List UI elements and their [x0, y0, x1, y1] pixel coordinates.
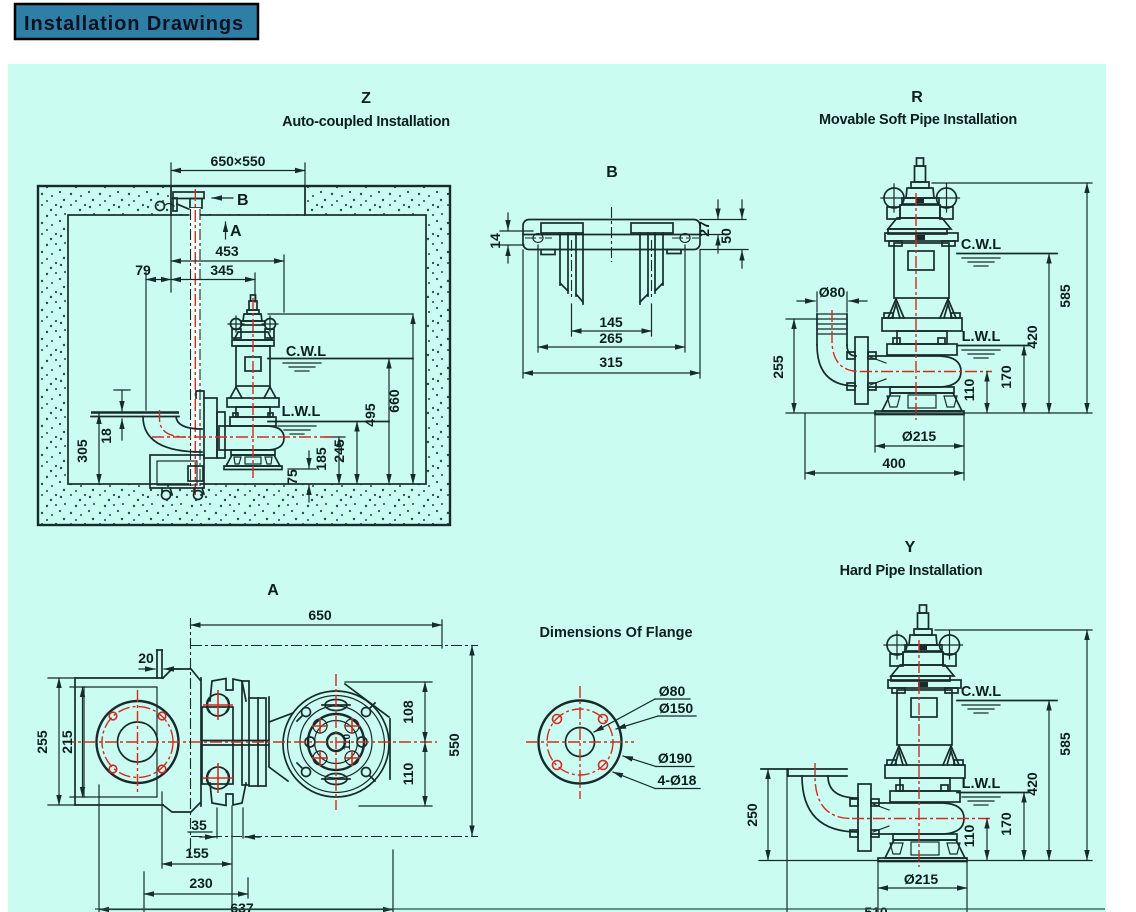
pump Z: skirt [226, 455, 280, 466]
base reference line [786, 412, 1092, 414]
dim 255 [786, 318, 818, 320]
left prong [560, 233, 568, 293]
volute [868, 356, 961, 387]
guide claw top [210, 679, 246, 702]
dim 637 [98, 785, 100, 912]
svg-text:L.W.L: L.W.L [962, 776, 1001, 792]
svg-text:50: 50 [718, 228, 734, 244]
pump top reference line [268, 313, 413, 315]
svg-text:18: 18 [98, 428, 114, 444]
svg-text:C.W.L: C.W.L [961, 237, 1001, 253]
dim 18 [114, 389, 130, 391]
svg-text:510: 510 [864, 904, 888, 912]
svg-text:Ø80: Ø80 [659, 683, 686, 699]
pump assembly (R position) [847, 158, 964, 420]
pump Z: bottom slab [224, 466, 282, 470]
svg-text:110: 110 [961, 824, 977, 847]
pump Z: motor body [236, 346, 270, 386]
lifting eyes [884, 188, 904, 208]
struts [888, 299, 956, 318]
hose bands [817, 314, 847, 334]
dim 420 [1048, 254, 1050, 414]
dim 315 [522, 250, 524, 378]
pump Z: top plates [234, 332, 272, 340]
dim 155 [161, 792, 163, 868]
svg-text:R: R [911, 89, 923, 106]
dim O215 Y [877, 861, 879, 912]
svg-text:110: 110 [400, 762, 416, 785]
svg-text:230: 230 [189, 875, 213, 891]
flange bolt holes (red) [109, 712, 117, 720]
pump Z: seal band [230, 417, 276, 426]
left prong mount [541, 223, 583, 233]
rail lower bracket [188, 466, 203, 481]
right prong mount [631, 223, 673, 233]
svg-text:108: 108 [400, 700, 416, 724]
svg-text:C.W.L: C.W.L [961, 684, 1001, 700]
guide rail bracket [173, 192, 204, 199]
dim 145 [571, 304, 573, 336]
svg-text:215: 215 [59, 730, 75, 754]
svg-text:145: 145 [599, 314, 623, 330]
svg-text:255: 255 [770, 355, 786, 379]
svg-text:585: 585 [1057, 284, 1073, 308]
clamp band [882, 318, 962, 331]
bolt circle (red dashed) [547, 709, 613, 775]
middle bracket vertical edge [200, 678, 202, 806]
discharge flange [855, 337, 868, 404]
pit wall stipple (concrete) [38, 186, 450, 525]
svg-text:20: 20 [138, 650, 154, 666]
plate right tab [667, 250, 681, 254]
right plates [242, 681, 249, 785]
svg-text:L.W.L: L.W.L [282, 404, 321, 420]
bracket plate [523, 220, 700, 250]
dim 550 [471, 646, 473, 836]
svg-text:Z: Z [361, 90, 371, 107]
red pipe centerline [832, 310, 860, 372]
svg-text:C.W.L: C.W.L [286, 344, 326, 360]
dim 345 [171, 279, 255, 281]
svg-text:Ø150: Ø150 [659, 700, 693, 716]
svg-text:Hard Pipe Installation: Hard Pipe Installation [840, 563, 983, 579]
soft pipe elbow [817, 345, 856, 386]
dim 660 [412, 314, 414, 484]
svg-text:Y: Y [905, 539, 916, 556]
base plate [890, 387, 954, 393]
svg-text:4-Ø18: 4-Ø18 [658, 772, 697, 788]
dim O215 [874, 414, 876, 452]
cable gland [917, 158, 924, 166]
flange red vertical centerline [137, 690, 139, 794]
dim 79 [146, 279, 171, 281]
svg-text:B: B [606, 164, 618, 181]
skirt [882, 393, 962, 411]
dim 585 Y [1086, 630, 1088, 860]
red horizontal centerline Y [852, 818, 992, 820]
pump assembly (Y position, reused) [850, 605, 967, 867]
dim 265 [537, 245, 539, 352]
head plates [888, 229, 947, 234]
svg-text:315: 315 [599, 354, 623, 370]
hatch opening edge right [304, 186, 306, 215]
20 step [156, 650, 158, 678]
hard pipe top flange plate [761, 768, 847, 770]
mid section [897, 331, 947, 344]
svg-text:Dimensions Of Flange: Dimensions Of Flange [539, 625, 692, 641]
dim 35 [216, 808, 218, 838]
long red horizontal centerline [63, 741, 437, 743]
dim 170 [1023, 346, 1025, 414]
svg-text:265: 265 [599, 330, 623, 346]
bench shelf [91, 411, 179, 413]
dash-dot axis vertical [190, 618, 192, 858]
flange outer circle [539, 701, 622, 784]
svg-text:255: 255 [34, 730, 50, 754]
pump Z: volute [219, 426, 284, 450]
svg-text:79: 79 [135, 262, 151, 278]
dim 185 [325, 436, 345, 438]
svg-text:14: 14 [487, 233, 503, 249]
seal band [887, 344, 957, 355]
volute casing [283, 691, 389, 797]
guide claw on rail [204, 398, 217, 458]
elbow support frame [150, 455, 204, 488]
flange bore circle [566, 728, 595, 757]
svg-text:Ø80: Ø80 [819, 284, 846, 300]
top reference line [932, 182, 1092, 184]
dim 108 / 110 [345, 681, 432, 683]
dim 27 [700, 219, 746, 221]
inner bolts with red crosses [313, 719, 327, 733]
dim 215 A [70, 686, 85, 688]
red horizontal centerline [860, 371, 992, 373]
clamp pads [325, 700, 347, 711]
pump Z: struts [230, 387, 276, 398]
guide rail [190, 208, 201, 487]
svg-text:Auto-coupled Installation: Auto-coupled Installation [282, 114, 450, 130]
svg-text:27: 27 [696, 221, 712, 237]
right prong [640, 233, 648, 304]
hatch opening edge left [170, 186, 172, 215]
discharge channel [269, 713, 293, 722]
dim 255 A [48, 677, 76, 679]
dim 50 [700, 249, 748, 251]
bolt hole right [680, 234, 690, 243]
A arrow [225, 222, 227, 239]
pump Z: base plate [231, 450, 275, 455]
dim 400 [804, 414, 806, 479]
svg-text:B: B [237, 192, 249, 209]
svg-text:345: 345 [210, 262, 234, 278]
svg-text:585: 585 [1057, 732, 1073, 756]
volute red centerline vertical [335, 674, 337, 810]
bottom frame edge line [95, 908, 1105, 910]
pit outer wall [38, 186, 450, 525]
dim 110 [986, 372, 988, 414]
svg-text:305: 305 [74, 439, 90, 463]
svg-text:A: A [230, 223, 242, 240]
svg-text:170: 170 [998, 812, 1014, 836]
svg-text:75: 75 [284, 469, 300, 485]
svg-text:Movable Soft Pipe Installation: Movable Soft Pipe Installation [819, 112, 1017, 128]
svg-text:495: 495 [362, 403, 378, 427]
pump Z: lifting eyes [231, 319, 242, 330]
dim 495 [388, 359, 390, 485]
svg-text:453: 453 [215, 243, 239, 259]
svg-text:637: 637 [230, 900, 254, 912]
dim 453 [171, 260, 284, 262]
svg-text:A: A [267, 582, 279, 599]
svg-text:Ø215: Ø215 [904, 871, 938, 887]
red vertical centerline [915, 193, 917, 420]
svg-text:Installation Drawings: Installation Drawings [24, 13, 244, 35]
dim 20 [139, 668, 155, 670]
pump Z: clamp band [227, 398, 279, 407]
pump Z: cable [251, 295, 256, 301]
pump Z: red centerlines [252, 298, 254, 480]
dim 14 [500, 230, 533, 232]
svg-text:L.W.L: L.W.L [962, 329, 1001, 345]
dim 420 Y [1048, 701, 1050, 861]
volute rings [300, 706, 372, 778]
long extension line [786, 769, 788, 912]
red crosshair [526, 741, 634, 743]
left plate outline [75, 678, 163, 805]
guide claw bottom [210, 783, 246, 806]
dim 170 Y [1023, 793, 1025, 861]
hub [327, 733, 345, 751]
top reference line Y [935, 629, 1092, 631]
pump Z: mid section [236, 407, 270, 417]
bolt hole left [533, 234, 543, 243]
head cover [888, 218, 951, 229]
dim 250 [767, 769, 769, 860]
center line [611, 207, 613, 262]
corner hooks [297, 703, 375, 781]
dim 230 [143, 872, 145, 912]
pit cavity [68, 215, 426, 484]
frame wheels [162, 491, 171, 500]
dash-dot reference top [191, 645, 478, 647]
svg-text:400: 400 [882, 455, 906, 471]
soft pipe riser [816, 314, 818, 345]
dim 305 [98, 414, 100, 484]
yoke band [900, 205, 940, 218]
svg-text:Ø190: Ø190 [658, 750, 692, 766]
svg-text:550: 550 [446, 733, 462, 757]
dim 245 [356, 422, 358, 485]
svg-text:35: 35 [191, 817, 207, 833]
base reference line Y [759, 860, 1092, 862]
bottom slab [875, 411, 964, 415]
svg-text:110: 110 [961, 378, 977, 401]
dim 585 [1086, 183, 1088, 413]
motor body [894, 243, 949, 298]
dim 110 Y [986, 819, 988, 861]
dim 75 [288, 468, 316, 470]
header title box [15, 4, 258, 39]
wall anchor [156, 202, 165, 211]
svg-text:250: 250 [744, 803, 760, 827]
svg-text:Ø215: Ø215 [902, 428, 936, 444]
B arrow [212, 197, 233, 199]
plate left tab [541, 250, 555, 255]
suction flange circle [97, 701, 179, 783]
dim 650 [441, 620, 443, 648]
svg-text:170: 170 [998, 365, 1014, 389]
svg-text:650×550: 650×550 [211, 153, 266, 169]
svg-text:650: 650 [308, 607, 332, 623]
dim O80 [816, 292, 818, 312]
red pipe centerline Y [815, 763, 852, 819]
dim 650x550 [171, 170, 305, 172]
svg-text:155: 155 [185, 845, 209, 861]
hard pipe elbow [802, 776, 858, 832]
central block [202, 707, 233, 784]
bolt holes [553, 715, 562, 724]
bracket bolts with red crosses [207, 694, 229, 716]
cap [906, 188, 934, 198]
pump Z: cap [247, 310, 259, 314]
dash-dot reference bottom [191, 836, 478, 838]
discharge elbow [143, 417, 202, 453]
svg-text:185: 185 [313, 447, 329, 471]
